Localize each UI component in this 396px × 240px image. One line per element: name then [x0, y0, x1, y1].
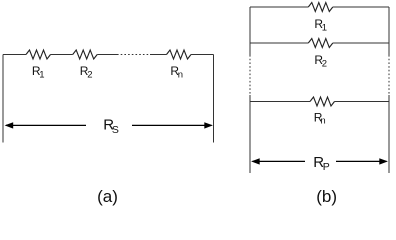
- dimension arrow RS right half: [132, 122, 213, 128]
- svg-text:2: 2: [87, 69, 92, 80]
- svg-text:n: n: [320, 115, 325, 126]
- svg-text:S: S: [112, 124, 119, 136]
- wire: bottom branch left segment (b): [250, 101, 310, 103]
- wire: bottom branch right segment (b): [335, 101, 390, 103]
- wire: segment after R2 (a): [97, 54, 117, 56]
- dimension arrow RP left half: [251, 158, 305, 164]
- dimension arrow RS left half: [5, 122, 86, 128]
- value label Rn (a): [170, 64, 183, 81]
- svg-text:1: 1: [322, 22, 327, 33]
- wire: left rail bottom solid section (b): [249, 95, 251, 173]
- svg-text:(b): (b): [316, 187, 337, 206]
- value label Rn (b): [314, 110, 326, 126]
- label RS: [103, 117, 119, 136]
- svg-text:n: n: [178, 69, 183, 80]
- value label R2 (b): [314, 53, 327, 70]
- wire: top branch right segment (b): [333, 6, 389, 8]
- wire: top-left horizontal segment to R1 (a): [3, 54, 26, 56]
- svg-text:1: 1: [39, 69, 44, 80]
- wire: right rail top solid section (b): [388, 7, 390, 55]
- resistor R2 (series circuit a): [73, 50, 98, 59]
- wire: left vertical lead of series circuit (a): [2, 55, 4, 143]
- wire: middle branch left segment (b): [250, 42, 308, 44]
- wire: segment between R1 and R2 (a): [51, 54, 73, 56]
- value label R1 (b): [314, 17, 327, 34]
- value label R1 (a): [32, 64, 45, 81]
- svg-text:2: 2: [322, 59, 327, 70]
- wire: segment before Rn (a): [150, 54, 167, 56]
- resistor R1 (parallel circuit b): [308, 3, 333, 12]
- wire: left rail dotted section (b): [249, 55, 251, 95]
- resistor R1 (series circuit a): [26, 50, 51, 59]
- wire: dotted continuation segment (a): [117, 54, 150, 56]
- dimension arrow RP right half: [336, 158, 388, 164]
- svg-text:P: P: [323, 161, 330, 173]
- label RP: [313, 154, 330, 173]
- wire: right rail dotted section (b): [388, 55, 390, 95]
- resistor R2 (parallel circuit b): [308, 39, 333, 48]
- wire: top branch left segment (b): [250, 6, 308, 8]
- wire: right rail bottom solid section (b): [388, 95, 390, 173]
- svg-text:(a): (a): [97, 187, 118, 206]
- wire: middle branch right segment (b): [333, 42, 389, 44]
- value label R2 (a): [80, 64, 93, 81]
- resistor Rn (parallel circuit b): [310, 97, 335, 106]
- resistor Rn (series circuit a): [167, 50, 192, 59]
- wire: segment from Rn to right corner (a): [191, 54, 214, 56]
- wire: right vertical lead of series circuit (a): [213, 55, 215, 143]
- wire: left rail top solid section (parallel circuit b): [249, 7, 251, 55]
